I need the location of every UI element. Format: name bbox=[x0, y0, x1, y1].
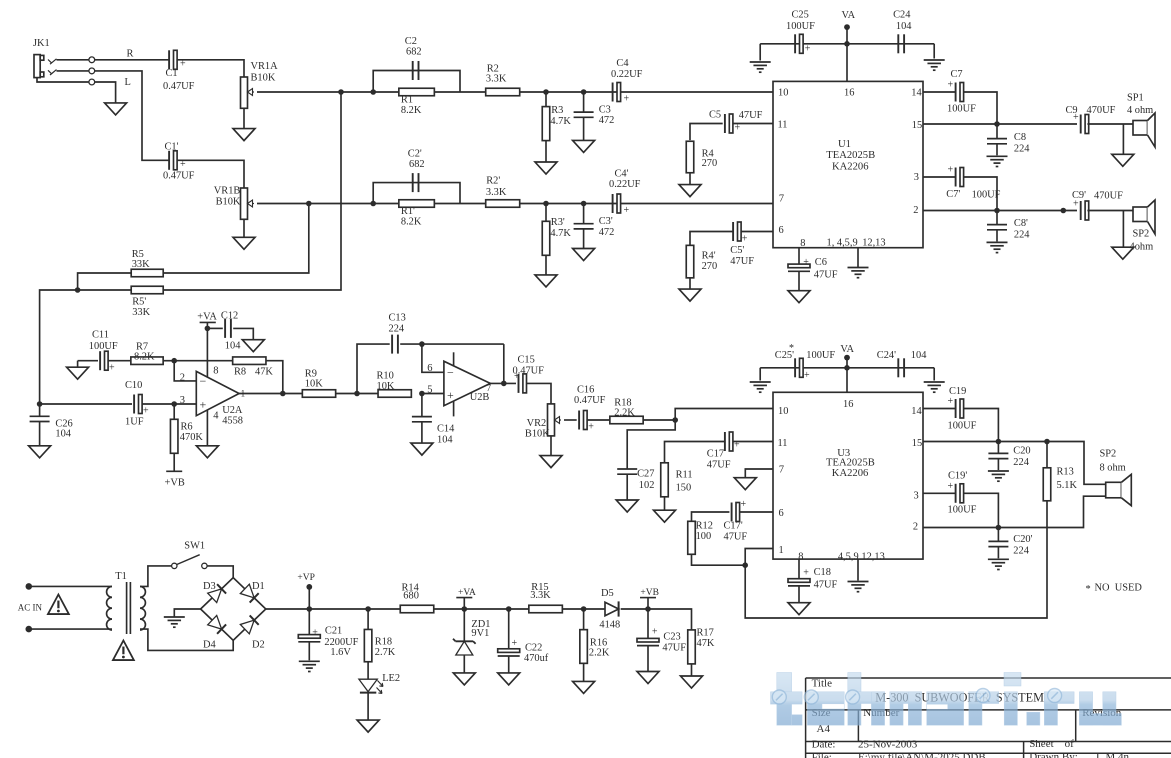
ground (C18) bbox=[788, 603, 810, 615]
wire C5' to R4' bbox=[690, 232, 733, 246]
resistor R3 bbox=[542, 105, 571, 141]
svg-text:1, 4,5,9: 1, 4,5,9 bbox=[827, 237, 858, 248]
svg-text:B10K: B10K bbox=[525, 429, 550, 440]
svg-text:C3': C3' bbox=[599, 216, 613, 227]
wire U3 pin3 to C19p bbox=[923, 492, 956, 494]
potentiometer VR1B bbox=[214, 186, 254, 220]
ground (C24') bbox=[924, 382, 945, 392]
svg-text:R3': R3' bbox=[551, 217, 565, 228]
connector JK1 body bbox=[33, 38, 50, 78]
svg-text:VA: VA bbox=[842, 10, 856, 21]
capacitor C19 bbox=[948, 386, 977, 432]
ground (C3) bbox=[573, 140, 595, 152]
wire R3 to ground bbox=[545, 140, 547, 162]
svg-text:D3: D3 bbox=[203, 581, 216, 592]
svg-text:+: + bbox=[804, 370, 810, 381]
wire R12 to pin1 node bbox=[692, 554, 746, 565]
svg-text:100: 100 bbox=[696, 531, 712, 542]
svg-text:47UF: 47UF bbox=[724, 532, 748, 543]
svg-text:C2': C2' bbox=[408, 149, 422, 160]
capacitor C24' bbox=[877, 350, 927, 377]
svg-text:*: * bbox=[1086, 584, 1091, 595]
svg-text:C20: C20 bbox=[1013, 445, 1030, 456]
VA bus wire bbox=[760, 43, 934, 45]
capacitor C15 bbox=[513, 355, 545, 393]
svg-text:12,13: 12,13 bbox=[862, 237, 885, 248]
svg-text:682: 682 bbox=[406, 47, 422, 58]
wire C19 to pin15 node bbox=[963, 409, 998, 442]
svg-text:470K: 470K bbox=[180, 432, 204, 443]
svg-text:1UF: 1UF bbox=[125, 417, 144, 428]
svg-text:C12: C12 bbox=[221, 311, 238, 322]
bridge diamond edges bbox=[201, 578, 266, 641]
resistor R9 bbox=[302, 369, 335, 398]
svg-text:R: R bbox=[127, 49, 134, 60]
wire R17 to ground bbox=[691, 664, 693, 676]
svg-text:2.2K: 2.2K bbox=[614, 407, 635, 418]
ground (LE2) bbox=[357, 720, 379, 732]
capacitor C8 bbox=[987, 132, 1030, 155]
wire C17 to R11 bbox=[665, 442, 726, 464]
wire U1 pin11 to C5 bbox=[733, 123, 773, 125]
svg-text:+: + bbox=[742, 233, 748, 244]
ground (SP1) bbox=[1112, 154, 1134, 166]
wire C18 to ground bbox=[798, 586, 800, 603]
svg-text:C1: C1 bbox=[166, 68, 178, 79]
capacitor C14 bbox=[412, 417, 455, 446]
ground (jack sleeve) bbox=[105, 103, 127, 115]
svg-text:2.7K: 2.7K bbox=[375, 647, 396, 658]
speaker SP2 (8 ohm) bbox=[1106, 474, 1132, 505]
capacitor C3' bbox=[574, 216, 615, 238]
junction R line / R3 bbox=[543, 89, 549, 95]
svg-text:B10K: B10K bbox=[216, 197, 241, 208]
speaker SP1 bbox=[1133, 113, 1155, 147]
svg-text:R3: R3 bbox=[551, 105, 563, 116]
svg-text:D1: D1 bbox=[252, 581, 265, 592]
svg-text:224: 224 bbox=[1014, 144, 1030, 155]
wire C26 node to C10 bbox=[40, 403, 132, 405]
resistor R15 bbox=[529, 582, 563, 613]
junction R line / R5p drop bbox=[338, 89, 344, 95]
op-amp U2B bbox=[427, 361, 491, 406]
wire SP2 to ground bbox=[1122, 211, 1124, 248]
svg-text:3: 3 bbox=[914, 491, 919, 502]
svg-text:U1: U1 bbox=[838, 139, 851, 150]
wire C22 stem bbox=[508, 609, 510, 649]
svg-text:R11: R11 bbox=[676, 470, 693, 481]
svg-text:47UF: 47UF bbox=[814, 580, 838, 591]
ground (VR2) bbox=[540, 456, 562, 468]
resistor R12 bbox=[688, 521, 713, 555]
svg-text:47UF: 47UF bbox=[739, 110, 763, 121]
svg-text:VA: VA bbox=[840, 344, 854, 355]
switch SW1 bbox=[172, 541, 207, 569]
wire U1 pin2 to C9p bbox=[923, 210, 1077, 212]
jack contact circle 1 bbox=[89, 57, 95, 63]
wire junction to U2A pin2 bbox=[174, 361, 196, 381]
svg-text:File:: File: bbox=[812, 752, 832, 758]
resistor R14 bbox=[400, 583, 434, 613]
wire R11 to ground bbox=[664, 496, 666, 510]
resistor R3' bbox=[542, 217, 571, 255]
svg-text:C17': C17' bbox=[724, 521, 743, 532]
svg-text:+: + bbox=[512, 638, 518, 649]
wire C3 stem bbox=[583, 92, 585, 112]
ground (C20') bbox=[988, 559, 1009, 569]
svg-text:*: * bbox=[789, 343, 794, 354]
wire C25' to ground bbox=[759, 368, 761, 381]
capacitor C27 bbox=[617, 468, 654, 491]
ground (C23) bbox=[637, 672, 659, 684]
svg-text:C6: C6 bbox=[815, 257, 827, 268]
svg-text:+: + bbox=[109, 363, 115, 374]
ground (C14) bbox=[411, 443, 433, 455]
capacitor C25 bbox=[786, 10, 815, 55]
wire R3 stem bbox=[545, 92, 547, 107]
ground (C22) bbox=[498, 673, 520, 685]
jack contact circle 3 bbox=[89, 79, 95, 85]
resistor R5' bbox=[131, 286, 163, 318]
wire C20' to ground bbox=[997, 547, 999, 559]
svg-text:R4': R4' bbox=[702, 251, 716, 262]
junction L line / C2' loop bbox=[370, 201, 376, 207]
ground (C6) bbox=[788, 291, 810, 303]
svg-text:14: 14 bbox=[911, 406, 922, 417]
resistor R1' bbox=[399, 200, 435, 228]
junction VA bus (U3) bbox=[844, 365, 850, 371]
svg-text:14: 14 bbox=[911, 87, 922, 98]
svg-text:47UF: 47UF bbox=[662, 643, 686, 654]
svg-text:7: 7 bbox=[779, 194, 784, 205]
junction +VA / C12 bbox=[205, 326, 211, 332]
svg-text:E:\my file\AN\M-2025.DDB: E:\my file\AN\M-2025.DDB bbox=[858, 752, 986, 758]
svg-text:+VB: +VB bbox=[640, 588, 659, 598]
wire C23 stem bbox=[647, 609, 649, 638]
ground (C3') bbox=[573, 249, 595, 261]
capacitor C21 bbox=[298, 626, 358, 658]
junction L line / R5 drop bbox=[306, 201, 312, 207]
wire C2 loop bbox=[373, 71, 460, 93]
wire C8' stem bbox=[996, 211, 998, 225]
resistor R4' bbox=[686, 245, 717, 278]
wire R4 to ground bbox=[689, 173, 691, 185]
wire C25 to ground bbox=[759, 44, 761, 61]
capacitor C7 bbox=[947, 69, 976, 114]
svg-text:L: L bbox=[125, 77, 131, 88]
svg-text:+: + bbox=[948, 80, 954, 91]
power terminal +VB (R6) bbox=[165, 471, 185, 488]
wire U2A output bbox=[239, 393, 302, 395]
svg-text:C22: C22 bbox=[525, 643, 542, 654]
wire C15 to VR2 bbox=[527, 383, 551, 404]
svg-text:C19': C19' bbox=[948, 471, 967, 482]
ground (C8') bbox=[987, 242, 1008, 252]
wire U3 pin6 to C17p bbox=[740, 511, 773, 513]
svg-text:JK1: JK1 bbox=[33, 38, 50, 49]
wire AC top to T1 bbox=[29, 585, 108, 587]
wire sleeve to ground bbox=[95, 82, 116, 103]
potentiometer VR2 bbox=[525, 404, 561, 440]
svg-text:C14: C14 bbox=[437, 424, 455, 435]
svg-text:100UF: 100UF bbox=[89, 341, 118, 352]
ground (VR1B) bbox=[233, 237, 255, 249]
wire C9' to SP2 bbox=[1087, 210, 1133, 212]
capacitor C18 bbox=[788, 567, 837, 591]
wire U2B output bbox=[490, 382, 516, 384]
wire ground to C11 bbox=[78, 360, 98, 362]
wire R4' to ground bbox=[689, 278, 691, 289]
svg-text:4: 4 bbox=[213, 410, 219, 421]
wire R: circle1 to C1 bbox=[95, 59, 170, 61]
wire C11 to R7 bbox=[108, 360, 131, 362]
capacitor C17 bbox=[707, 432, 740, 471]
wire VR2 wiper to C16 bbox=[564, 419, 577, 421]
svg-text:Sheet of: Sheet of bbox=[1029, 738, 1074, 750]
VA bus wire (U3) bbox=[760, 367, 934, 369]
svg-text:33K: 33K bbox=[132, 307, 150, 318]
svg-text:D2: D2 bbox=[252, 639, 265, 650]
svg-text:470UF: 470UF bbox=[1087, 105, 1116, 116]
ground (VR1A) bbox=[233, 129, 255, 141]
svg-text:150: 150 bbox=[676, 483, 692, 494]
junction R5/R5' bbox=[75, 287, 81, 293]
svg-text:3.3K: 3.3K bbox=[486, 74, 507, 85]
svg-text:47UF: 47UF bbox=[707, 460, 731, 471]
svg-text:0.47UF: 0.47UF bbox=[574, 395, 606, 406]
wire U3 pin11 to C17 bbox=[733, 441, 773, 443]
svg-text:0.47UF: 0.47UF bbox=[513, 365, 545, 376]
wire LED to ground bbox=[367, 693, 369, 721]
svg-text:15: 15 bbox=[912, 438, 922, 449]
diode D1 bbox=[240, 584, 258, 602]
wire arm1 to circle1 bbox=[57, 59, 89, 61]
svg-text:224: 224 bbox=[1014, 230, 1030, 241]
svg-text:680: 680 bbox=[403, 590, 419, 601]
rail R14 to R15 bbox=[434, 608, 529, 610]
capacitor C23 bbox=[637, 627, 686, 654]
svg-text:C23: C23 bbox=[663, 632, 680, 643]
junction R9/R10/C13 bbox=[354, 391, 360, 397]
power terminal +VA (U2A) bbox=[197, 312, 217, 323]
capacitor C12 bbox=[221, 311, 241, 352]
svg-text:Drawn By:: Drawn By: bbox=[1029, 751, 1078, 758]
ground (C25) bbox=[750, 62, 771, 72]
svg-text:682: 682 bbox=[409, 159, 425, 170]
svg-text:2: 2 bbox=[913, 522, 918, 533]
svg-text:C4: C4 bbox=[616, 58, 629, 69]
wire U3 pin14 to C19 bbox=[923, 408, 956, 410]
svg-text:SW1: SW1 bbox=[184, 541, 205, 552]
wire C1' to VR1B top bbox=[177, 160, 244, 188]
svg-text:3: 3 bbox=[914, 172, 919, 183]
svg-text:472: 472 bbox=[599, 227, 615, 238]
wire U1 pin6 to C5p bbox=[741, 231, 773, 233]
svg-text:6: 6 bbox=[427, 363, 432, 374]
wire +VB to rail bbox=[647, 598, 649, 609]
junction L line / R3' bbox=[543, 201, 549, 207]
wire ZD1 stem bbox=[463, 609, 465, 641]
junction L line / C3' bbox=[581, 201, 587, 207]
junction R18b/pin10 bbox=[672, 417, 678, 423]
svg-text:R8: R8 bbox=[234, 366, 246, 377]
wire C16 to R18b bbox=[587, 419, 610, 421]
svg-text:104: 104 bbox=[55, 429, 71, 440]
svg-text:C9: C9 bbox=[1066, 105, 1078, 116]
capacitor C7' bbox=[946, 165, 1000, 201]
junction rail / C21 bbox=[307, 606, 313, 612]
wire U1 pin14 to C7 bbox=[923, 91, 956, 93]
wire R13 top bbox=[1046, 442, 1048, 468]
op-amp U2A bbox=[180, 366, 245, 427]
wire C26 to ground bbox=[39, 422, 41, 446]
op-amp IC U1 TEA2025B box bbox=[773, 81, 923, 247]
jack contact circle 2 bbox=[89, 68, 95, 74]
resistor R4 bbox=[686, 141, 717, 173]
svg-text:C9': C9' bbox=[1072, 190, 1086, 201]
diode D3 bbox=[208, 584, 226, 602]
ground (C11) bbox=[67, 367, 89, 379]
wire circle2 to C1p bbox=[95, 71, 170, 160]
svg-text:8.2K: 8.2K bbox=[134, 351, 155, 362]
svg-text:3.3K: 3.3K bbox=[530, 590, 551, 601]
svg-text:D5: D5 bbox=[601, 588, 614, 599]
svg-text:10K: 10K bbox=[305, 379, 323, 390]
ground (C21) bbox=[299, 661, 320, 671]
wire +VP to rail bbox=[308, 587, 310, 609]
wire C21 to ground bbox=[308, 642, 310, 661]
resistor R18 (2.2K) bbox=[610, 397, 643, 423]
resistor R18 (2.7K) bbox=[364, 629, 395, 661]
svg-text:104: 104 bbox=[896, 21, 912, 32]
wire R6 to +VB bbox=[173, 453, 175, 472]
svg-text:0.47UF: 0.47UF bbox=[163, 171, 195, 182]
wire ZD1 to ground bbox=[463, 655, 465, 673]
svg-text:4 ohm: 4 ohm bbox=[1127, 105, 1153, 116]
junction output/feedback bbox=[501, 381, 507, 387]
svg-text:100UF: 100UF bbox=[948, 421, 977, 432]
wire R16 to ground bbox=[583, 663, 585, 681]
wire VA to U3 pin16 bbox=[846, 358, 848, 393]
wire junction to C12 bbox=[207, 327, 222, 329]
svg-text:−: − bbox=[200, 374, 207, 388]
wire C10 to U2A pin3 bbox=[142, 403, 196, 405]
svg-text:VR2: VR2 bbox=[527, 418, 547, 429]
svg-text:+: + bbox=[805, 44, 811, 55]
svg-text:104: 104 bbox=[225, 341, 241, 352]
wire U1 pin3 to C7p bbox=[923, 176, 956, 178]
wire C8 to ground bbox=[996, 144, 998, 156]
capacitor C25' (not used) bbox=[775, 350, 836, 381]
resistor R5 bbox=[131, 249, 163, 277]
ground (U3 pin7) bbox=[734, 478, 756, 490]
wire C23 to ground bbox=[647, 646, 649, 672]
junction rail / R18a bbox=[365, 606, 371, 612]
junction pin2 / C8' bbox=[994, 208, 1000, 214]
svg-text:47K: 47K bbox=[697, 638, 715, 649]
VA terminal dot bbox=[844, 24, 850, 30]
wire R8 to output node bbox=[266, 361, 283, 394]
svg-text:10: 10 bbox=[778, 406, 788, 417]
svg-text:AC IN: AC IN bbox=[18, 603, 43, 613]
svg-text:R12: R12 bbox=[696, 521, 713, 532]
ground (ZD1) bbox=[453, 673, 475, 685]
svg-text:1.6V: 1.6V bbox=[330, 647, 351, 658]
svg-text:0.22UF: 0.22UF bbox=[611, 69, 643, 80]
svg-text:8.2K: 8.2K bbox=[401, 217, 422, 228]
svg-text:+: + bbox=[447, 388, 454, 402]
svg-text:C18: C18 bbox=[814, 567, 831, 578]
ground (C12) bbox=[242, 340, 264, 352]
svg-text:2: 2 bbox=[913, 205, 918, 216]
wire C21 stem bbox=[308, 609, 310, 635]
svg-text:C13: C13 bbox=[389, 313, 406, 324]
wire +VA to junction bbox=[206, 322, 208, 328]
svg-text:5: 5 bbox=[427, 385, 432, 396]
ground (C26) bbox=[29, 446, 51, 458]
wire junction to R8 bbox=[174, 360, 233, 362]
junction R line / C3 bbox=[581, 89, 587, 95]
capacitor C26 bbox=[30, 416, 73, 439]
wire SP1 to ground bbox=[1122, 124, 1124, 154]
svg-text:224: 224 bbox=[1013, 545, 1029, 556]
wire C13 riser bbox=[357, 344, 390, 393]
speaker SP2 (4 ohm) bbox=[1133, 200, 1155, 234]
svg-text:10K: 10K bbox=[377, 381, 395, 392]
ground (U1 pins 1,4,5,9,12,13) bbox=[848, 268, 869, 278]
potentiometer VR1A bbox=[241, 61, 279, 108]
ground (R4') bbox=[679, 289, 701, 301]
svg-text:C19: C19 bbox=[949, 386, 966, 397]
ground (R17) bbox=[681, 676, 703, 688]
svg-text:NO USED: NO USED bbox=[1095, 583, 1143, 594]
LED LE2 bbox=[359, 673, 400, 694]
jack ring contact arm bbox=[50, 70, 57, 75]
junction rail / R16 bbox=[581, 606, 587, 612]
svg-text:C24: C24 bbox=[893, 10, 911, 21]
wire R10 to pin5 bbox=[422, 393, 444, 395]
resistor R1 bbox=[399, 88, 435, 116]
diode D2 bbox=[240, 615, 258, 633]
svg-text:SP2: SP2 bbox=[1100, 449, 1117, 460]
wire C12 to ground bbox=[233, 328, 253, 339]
svg-text:−: − bbox=[447, 365, 454, 379]
svg-text:3: 3 bbox=[180, 395, 185, 406]
svg-text:R17: R17 bbox=[697, 627, 714, 638]
svg-text:R2': R2' bbox=[486, 175, 500, 186]
wire U3 pin7 to ground bbox=[745, 469, 773, 478]
svg-text:11: 11 bbox=[778, 120, 788, 131]
power terminal +VB bbox=[640, 588, 659, 598]
svg-text:R13: R13 bbox=[1057, 467, 1074, 478]
+VP terminal dot bbox=[306, 584, 312, 590]
svg-text:+: + bbox=[652, 627, 658, 638]
wire T1 secondary bottom to bridge bbox=[145, 629, 234, 650]
wire AC bottom to T1 bbox=[29, 628, 108, 630]
jack tip contact arm bbox=[50, 59, 57, 64]
svg-text:1: 1 bbox=[779, 545, 784, 556]
svg-text:C5': C5' bbox=[730, 245, 744, 256]
svg-text:C7': C7' bbox=[946, 189, 960, 200]
svg-text:C2: C2 bbox=[405, 36, 417, 47]
svg-text:C1': C1' bbox=[165, 142, 179, 153]
capacitor C19' bbox=[948, 471, 977, 516]
svg-text:VR1B: VR1B bbox=[214, 186, 241, 197]
svg-text:R1': R1' bbox=[401, 206, 415, 217]
svg-text:+: + bbox=[735, 123, 741, 134]
svg-text:+: + bbox=[734, 440, 740, 451]
wire C7 to pin15 node bbox=[963, 92, 997, 124]
